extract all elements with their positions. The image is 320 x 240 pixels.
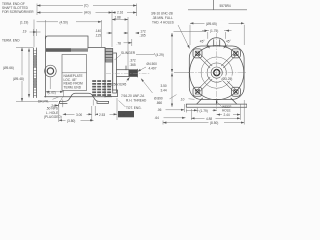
svg-text:Ø4.500: Ø4.500 <box>147 62 158 66</box>
svg-text:.64: .64 <box>155 116 160 120</box>
svg-text:.165: .165 <box>140 34 146 38</box>
flange square <box>189 46 244 99</box>
svg-text:(4.50): (4.50) <box>60 20 68 24</box>
svg-text:R.H. THREAD: R.H. THREAD <box>126 98 147 102</box>
svg-text:(1.19): (1.19) <box>20 20 28 24</box>
top boss <box>207 38 225 47</box>
svg-text:(3.80): (3.80) <box>67 119 75 123</box>
bolt ears <box>193 49 240 96</box>
svg-text:4.497: 4.497 <box>149 67 157 71</box>
dim 2.53 <box>95 113 117 115</box>
dim (1.75) <box>202 30 208 32</box>
svg-text:TERM. END: TERM. END <box>2 38 20 42</box>
dim 3.00 <box>63 113 92 115</box>
vent slots bottom <box>92 80 111 96</box>
svg-text:THD. 4 HOLES: THD. 4 HOLES <box>152 20 174 24</box>
shell circle <box>190 46 244 100</box>
svg-text:(AG): (AG) <box>84 11 91 15</box>
dim (dia 3.25) <box>221 76 240 81</box>
svg-text:.06: .06 <box>157 108 162 112</box>
svg-text:(4.29): (4.29) <box>156 53 164 57</box>
svg-text:(1.79): (1.79) <box>200 109 208 113</box>
svg-text:FOR SCREWDRIVER: FOR SCREWDRIVER <box>2 10 34 14</box>
title block <box>188 0 247 10</box>
dim 1.88 <box>112 19 128 21</box>
dim dia 5.48 <box>12 75 31 81</box>
centerlines <box>216 32 218 112</box>
svg-text:2.44: 2.44 <box>224 113 230 117</box>
svg-text:.115: .115 <box>95 34 101 38</box>
svg-text:5578R4: 5578R4 <box>220 4 231 8</box>
spokes <box>197 52 237 92</box>
svg-text:(Ø5.48): (Ø5.48) <box>13 77 24 81</box>
svg-text:2.16: 2.16 <box>117 10 123 14</box>
svg-text:.140: .140 <box>95 29 101 33</box>
dim (AG) <box>37 12 112 14</box>
svg-text:1.06: 1.06 <box>120 113 126 117</box>
svg-text:(Ø5.66): (Ø5.66) <box>3 66 14 70</box>
svg-text:.24: .24 <box>51 104 56 108</box>
svg-text:Ø.6250/.6245: Ø.6250/.6245 <box>107 83 127 87</box>
svg-text:1.88: 1.88 <box>115 16 121 20</box>
svg-text:(Ø5.65): (Ø5.65) <box>206 22 217 26</box>
svg-text:TERM. END: TERM. END <box>64 85 82 89</box>
svg-text:2.53: 2.53 <box>99 113 105 117</box>
svg-text:45°: 45° <box>226 40 232 44</box>
svg-text:(1.75): (1.75) <box>210 29 218 33</box>
svg-text:.860: .860 <box>156 101 162 105</box>
nameplate box <box>62 55 87 91</box>
shaft side view <box>117 66 129 76</box>
svg-text:(Ø3.25): (Ø3.25) <box>222 77 233 81</box>
extension seg near flange <box>136 54 158 56</box>
dim (4.29) <box>171 33 173 72</box>
svg-text:(8.50): (8.50) <box>210 121 218 125</box>
svg-text:HOLE: HOLE <box>222 108 231 112</box>
dim 2.44 <box>217 114 241 116</box>
dim (dia 5.65) <box>190 22 244 24</box>
svg-text:(C): (C) <box>84 3 88 7</box>
boxed label <box>118 111 134 117</box>
svg-text:3/8-16 UNC-2B: 3/8-16 UNC-2B <box>151 12 173 16</box>
svg-text:3.50: 3.50 <box>161 84 167 88</box>
canopy ribbed strip <box>34 48 37 98</box>
svg-text:.10: .10 <box>180 97 185 101</box>
dim (4.50) <box>46 21 102 23</box>
dim 2.16 <box>112 12 137 14</box>
svg-text:SLINGER: SLINGER <box>121 51 136 55</box>
shaft centerline <box>106 72 150 74</box>
dim (8.50) <box>163 122 244 124</box>
svg-text:DR.PR.: DR.PR. <box>38 100 49 104</box>
dim (3.80) <box>59 119 94 121</box>
bolt holes <box>195 51 238 94</box>
svg-text:.19: .19 <box>22 29 27 33</box>
flange plate side view <box>105 53 118 97</box>
hub circles <box>201 57 232 88</box>
shaft threads <box>129 69 138 76</box>
dim (1.62) <box>47 89 62 94</box>
svg-text:(1.62): (1.62) <box>48 90 56 94</box>
svg-text:TOT. ENG.: TOT. ENG. <box>126 106 142 110</box>
svg-text:3.00: 3.00 <box>76 113 82 117</box>
plug boss circle <box>45 65 57 77</box>
svg-text:.78: .78 <box>117 42 122 46</box>
svg-text:45°: 45° <box>200 40 206 44</box>
dim dia 5.66 <box>2 64 22 70</box>
svg-text:.38 MIN. FULL: .38 MIN. FULL <box>152 16 173 20</box>
svg-text:(PLUGGED): (PLUGGED) <box>44 115 62 119</box>
weep hole <box>216 100 218 103</box>
dim (C) <box>37 5 137 7</box>
base side view <box>60 93 109 103</box>
base end view <box>186 98 247 107</box>
dim 3.50/3.44 <box>171 73 173 107</box>
terminal box <box>46 36 89 48</box>
svg-text:.365: .365 <box>130 63 136 67</box>
adapter vent ladder top <box>105 49 112 63</box>
svg-text:3.44: 3.44 <box>161 88 167 92</box>
dim (1.79) <box>186 109 216 111</box>
dim 4.88 <box>191 117 240 119</box>
motor body outline <box>45 36 112 97</box>
svg-text:7/16-20 UNF-2A: 7/16-20 UNF-2A <box>121 94 145 98</box>
